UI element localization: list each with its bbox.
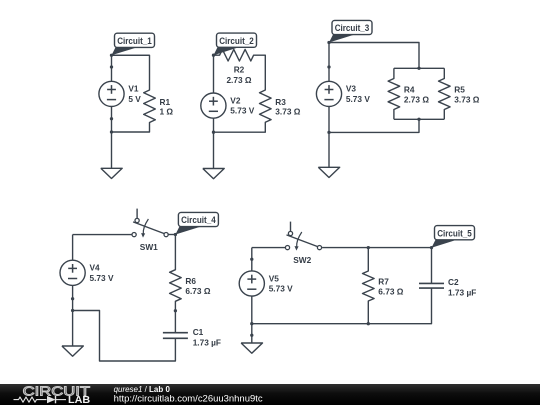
svg-text:1 Ω: 1 Ω — [160, 107, 174, 117]
svg-text:Circuit_3: Circuit_3 — [335, 23, 370, 33]
svg-text:R2: R2 — [234, 65, 245, 75]
svg-text:5.73 V: 5.73 V — [269, 284, 293, 294]
svg-text:3.73 Ω: 3.73 Ω — [454, 95, 479, 105]
svg-text:V5: V5 — [269, 273, 280, 283]
svg-text:R7: R7 — [378, 277, 389, 287]
svg-text:C1: C1 — [193, 327, 204, 337]
svg-text:SW1: SW1 — [140, 242, 158, 252]
svg-text:R3: R3 — [275, 97, 286, 107]
svg-text:5 V: 5 V — [128, 94, 141, 104]
svg-text:V1: V1 — [128, 84, 139, 94]
svg-text:Circuit_5: Circuit_5 — [437, 228, 472, 238]
svg-text:5.73 V: 5.73 V — [346, 94, 370, 104]
svg-text:R1: R1 — [160, 97, 171, 107]
svg-text:5.73 V: 5.73 V — [90, 273, 114, 283]
svg-text:C2: C2 — [448, 277, 459, 287]
svg-text:3.73 Ω: 3.73 Ω — [275, 107, 300, 117]
svg-text:V2: V2 — [230, 95, 241, 105]
svg-text:1.73 µF: 1.73 µF — [448, 287, 476, 297]
svg-text:2.73 Ω: 2.73 Ω — [404, 95, 429, 105]
svg-text:V4: V4 — [90, 263, 101, 273]
svg-text:R6: R6 — [185, 276, 196, 286]
svg-text:5.73 V: 5.73 V — [230, 106, 254, 116]
svg-text:1.73 µF: 1.73 µF — [193, 338, 221, 348]
svg-text:Circuit_4: Circuit_4 — [181, 215, 216, 225]
svg-text:V3: V3 — [346, 84, 357, 94]
svg-text:R4: R4 — [404, 85, 415, 95]
svg-text:6.73 Ω: 6.73 Ω — [185, 286, 210, 296]
svg-text:6.73 Ω: 6.73 Ω — [378, 287, 403, 297]
svg-text:Circuit_1: Circuit_1 — [117, 36, 152, 46]
svg-text:http://circuitlab.com/c26uu3nh: http://circuitlab.com/c26uu3nhnu9tc — [114, 392, 263, 403]
svg-text:LAB: LAB — [68, 395, 90, 405]
svg-text:SW2: SW2 — [293, 255, 311, 265]
svg-text:R5: R5 — [454, 85, 465, 95]
svg-text:2.73 Ω: 2.73 Ω — [226, 75, 251, 85]
svg-text:Circuit_2: Circuit_2 — [219, 36, 254, 46]
